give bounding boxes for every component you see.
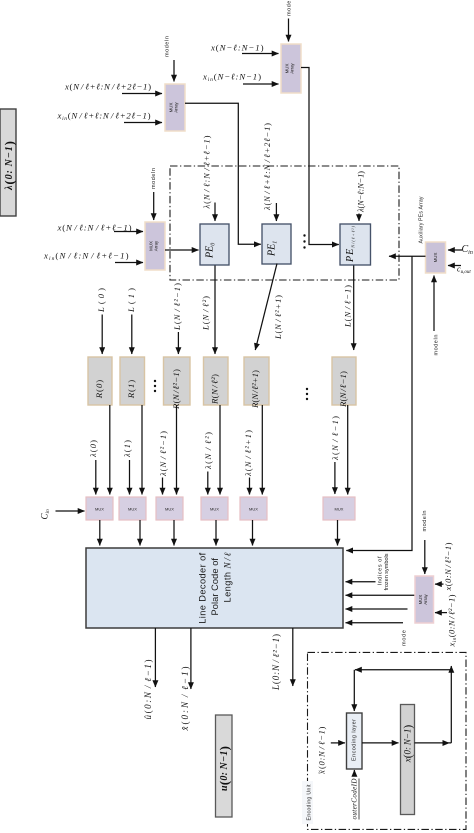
- wire lambda into PE1: [275, 203, 277, 221]
- register R(N/l^2+1): [244, 357, 269, 409]
- svg-text:modeIn: modeIn: [286, 0, 292, 16]
- svg-text:L(N / ℓ²−1): L(N / ℓ²−1): [172, 283, 182, 331]
- mux auxiliary MUX: [426, 242, 446, 273]
- svg-text:Array: Array: [174, 101, 179, 112]
- node L(0) dangling input: [96, 288, 106, 354]
- op PE0: [200, 224, 229, 265]
- wire R(1) output to MUX2: [141, 405, 143, 495]
- wire MUX array U1 output to PE1: [185, 103, 261, 244]
- MUX Array U1 (top left): [165, 84, 185, 131]
- mux M2: [119, 497, 146, 520]
- wire x(0:N-1) output to feedback corner: [415, 740, 452, 746]
- svg-text:λ(N / ℓ²): λ(N / ℓ²): [203, 432, 213, 470]
- node L(N/l^2-1) dangling input: [172, 283, 182, 354]
- mux M1: [86, 497, 113, 520]
- wire MUX5 output to decoder: [252, 520, 254, 546]
- svg-text:outerCodeID: outerCodeID: [350, 779, 358, 820]
- wire decoder output x_hat(0:N/l-1): [180, 628, 191, 732]
- svg-text:λ(N−ℓ:N−1): λ(N−ℓ:N−1): [356, 171, 366, 213]
- svg-text:MUX: MUX: [128, 507, 137, 512]
- svg-text:xin(N / ℓ+ℓ:N / ℓ+2ℓ−1): xin(N / ℓ+ℓ:N / ℓ+2ℓ−1): [57, 111, 151, 123]
- svg-text:R(N / ℓ²−1): R(N / ℓ²−1): [171, 369, 181, 410]
- op PE_last: [340, 224, 371, 265]
- mux M5: [240, 497, 267, 520]
- register R(1): [120, 357, 145, 405]
- wire x input to MUX array U1: [122, 93, 162, 95]
- svg-text:λ(N / ℓ+ℓ:N / ℓ+2ℓ−1): λ(N / ℓ+ℓ:N / ℓ+2ℓ−1): [262, 123, 272, 211]
- node outerCodeID input: [350, 770, 359, 820]
- wire MUX6 output to decoder: [337, 520, 339, 546]
- Encoding Unit dash-dot boundary: [308, 652, 467, 829]
- wire decoder output L(0:N/l^2-1): [271, 628, 293, 691]
- node lambda(N/l^2-1) dangling input to MUX3: [158, 431, 168, 495]
- svg-text:frozen symbols: frozen symbols: [384, 553, 390, 590]
- node lambda(N/l^2+1) dangling input to MUX5: [243, 430, 253, 495]
- mux M3: [156, 497, 183, 520]
- svg-text:λ(0: N−1): λ(0: N−1): [1, 141, 16, 191]
- svg-text:R(0): R(0): [94, 380, 104, 400]
- wire x_in input to MUX array U3: [243, 83, 279, 85]
- svg-text:λ(N / ℓ−1): λ(N / ℓ−1): [330, 416, 340, 461]
- svg-text:modeIn: modeIn: [434, 335, 440, 356]
- wire feedback top across: [355, 669, 451, 671]
- block Encoding layer: [347, 713, 363, 769]
- svg-text:R(1): R(1): [126, 380, 136, 400]
- node mode input to decoder: [346, 623, 408, 646]
- mux M6: [323, 497, 355, 520]
- node lambda(N/l^2) dangling input to MUX4: [203, 432, 213, 495]
- svg-text:MUX: MUX: [249, 507, 258, 512]
- wire decoder output u_hat(0:N/l-1): [143, 628, 155, 720]
- mux M4: [201, 497, 228, 520]
- wire c_u,out to aux MUX: [448, 265, 461, 267]
- svg-text:λ(N / ℓ:N / ℓ+ℓ−1): λ(N / ℓ:N / ℓ+ℓ−1): [202, 135, 212, 209]
- svg-text:Length N / ℓ: Length N / ℓ: [223, 552, 233, 602]
- register R(N/l-1): [332, 357, 356, 408]
- svg-text:Auxiliary PEs Array: Auxiliary PEs Array: [418, 196, 424, 243]
- wire R(N/l^2-1) output to MUX3: [176, 405, 178, 495]
- svg-text:λ(N / ℓ²+1): λ(N / ℓ²+1): [243, 430, 253, 477]
- wire lambda into PE_last: [358, 214, 360, 222]
- wire R(N/l^2) output to MUX4: [219, 405, 221, 495]
- wire MUX4 output to decoder: [215, 520, 217, 546]
- svg-text:MUX: MUX: [95, 507, 104, 512]
- wire MUX array U2 output to PE0: [165, 249, 199, 251]
- wire from aux MUX junction down to decoder right input 1: [346, 256, 412, 550]
- line decoder block: [86, 548, 343, 628]
- wire modeIn into MUX array U2: [151, 168, 157, 220]
- svg-text:Encoding layer: Encoding layer: [352, 719, 358, 761]
- svg-text:modeIn: modeIn: [151, 168, 157, 189]
- svg-text:x~(0:N / ℓ−1): x~(0:N / ℓ−1): [317, 726, 327, 774]
- wire modeIn into MUX array U1: [164, 36, 174, 82]
- svg-text:Array: Array: [154, 240, 159, 251]
- node L(1) dangling input: [126, 288, 136, 354]
- svg-text:λ(0): λ(0): [88, 440, 98, 458]
- wire MUX1 output to decoder: [99, 520, 101, 546]
- input bus bar lambda(0:N-1): [0, 109, 16, 216]
- dots between R(1) and R(N/l^2-1): [154, 380, 156, 392]
- dots between PE1 and PE_last: [303, 234, 305, 248]
- svg-text:x(N / ℓ+ℓ:N / ℓ+2ℓ−1): x(N / ℓ+ℓ:N / ℓ+2ℓ−1): [64, 82, 151, 92]
- node lambda(1) dangling input to MUX2: [122, 440, 132, 495]
- wire x input to MUX array U3: [242, 53, 279, 55]
- svg-text:modeIn: modeIn: [422, 511, 428, 532]
- wire MUX array U3 output to PE_last: [301, 68, 339, 245]
- svg-text:MUX: MUX: [210, 507, 219, 512]
- node lambda(N/l-1) dangling input to MUX6: [330, 416, 340, 494]
- wire modeIn into right MUX array: [422, 511, 428, 575]
- register R(N/l^2-1): [164, 357, 191, 410]
- wire R(N/l^2+1) output to MUX5: [261, 405, 263, 495]
- MUX Array (right, decoder side): [415, 576, 434, 623]
- svg-text:Line Decoder of: Line Decoder of: [198, 552, 208, 623]
- MUX Array U3 (top right): [281, 44, 301, 93]
- svg-text:MUX: MUX: [165, 507, 174, 512]
- wire modeIn up into aux MUX: [434, 276, 440, 356]
- svg-text:L(N / ℓ²): L(N / ℓ²): [201, 296, 211, 331]
- svg-text:λ(N / ℓ²−1): λ(N / ℓ²−1): [158, 431, 168, 477]
- node x_in(0:N/l^2-1) input to right MUX array: [435, 594, 458, 647]
- svg-text:L(N / ℓ²+1): L(N / ℓ²+1): [273, 295, 283, 340]
- wire PE1 output diagonal to R(N/l^2+1), node L(N/l^2+1): [255, 264, 283, 351]
- PEs array dash-dot boundary: [170, 166, 399, 280]
- wire MUX2 output to decoder: [139, 520, 141, 546]
- wire modeIn into MUX array U3: [286, 0, 292, 42]
- svg-text:R(N / ℓ−1): R(N / ℓ−1): [338, 371, 348, 408]
- wire MUX3 output to decoder: [173, 520, 175, 546]
- wire x input to MUX array U2: [114, 231, 143, 233]
- wire right MUX array output to decoder: [346, 594, 416, 596]
- svg-text:Array: Array: [423, 593, 428, 604]
- svg-text:x(0:N / ℓ²−1): x(0:N / ℓ²−1): [443, 542, 453, 591]
- wire dangling input to decoder: [346, 608, 408, 610]
- svg-text:Indices of: Indices of: [378, 556, 384, 585]
- svg-text:MUX: MUX: [433, 253, 438, 263]
- wire feedback down into encoding layer: [353, 670, 355, 711]
- svg-text:mode: mode: [401, 630, 407, 646]
- svg-text:L(N / ℓ−1): L(N / ℓ−1): [343, 285, 353, 328]
- register bar x(0:N-1): [401, 705, 415, 815]
- wire C_in to MUX1: [56, 510, 85, 512]
- svg-text:modeIn: modeIn: [164, 36, 170, 57]
- wire aux MUX output into PEs array: [389, 255, 426, 257]
- svg-text:R(N / ℓ²): R(N / ℓ²): [210, 374, 220, 405]
- svg-text:R(N / ℓ²+1): R(N / ℓ²+1): [250, 370, 260, 409]
- MUX Array U2 (left, feeds PE0): [145, 222, 165, 270]
- wire PE_last output down to R(N/l-1), node L(N/l-1): [343, 266, 354, 351]
- svg-text:u(0: N−1): u(0: N−1): [216, 746, 231, 791]
- wire x_in input to MUX array U1: [124, 122, 162, 124]
- dots between R(N/l^2+1) and R(N/l-1): [306, 388, 308, 400]
- svg-text:Encoding Unit: Encoding Unit: [306, 784, 312, 821]
- wire x_in input to MUX array U2: [115, 262, 143, 264]
- svg-text:x(N−ℓ:N−1): x(N−ℓ:N−1): [210, 43, 264, 53]
- wire PE0 output down to R(N/l^2), node L(N/l^2): [201, 266, 216, 355]
- wire C_in to aux MUX: [448, 249, 462, 251]
- svg-text:xin(N / ℓ:N / ℓ+ℓ−1): xin(N / ℓ:N / ℓ+ℓ−1): [43, 251, 129, 263]
- wire feedback up right side: [450, 666, 452, 743]
- svg-text:λ(1): λ(1): [122, 440, 132, 458]
- op PE1: [262, 224, 291, 264]
- svg-text:L(0:N / ℓ²−1): L(0:N / ℓ²−1): [271, 634, 281, 691]
- node Indices of frozen symbols input: [346, 553, 391, 590]
- register R(N/l^2): [204, 357, 229, 405]
- wire R(N/l-1) output to MUX6: [347, 405, 349, 495]
- label Encoding Unit: [302, 781, 313, 824]
- wire lambda into PE0: [214, 203, 216, 222]
- svg-text:Polar Code of: Polar Code of: [210, 558, 220, 616]
- output bus bar u(0:N-1): [216, 715, 233, 817]
- wire R(0) output to MUX1: [109, 405, 111, 495]
- wire encoding layer output to x(0:N-1): [362, 742, 399, 744]
- node lambda(0) dangling input to MUX1: [88, 440, 98, 495]
- node x(0:N/l^2-1) input to right MUX array: [435, 542, 453, 591]
- node x_tilde(0:N/l-1) input to encoding layer: [317, 726, 346, 774]
- svg-text:MUX: MUX: [335, 507, 344, 512]
- register R(0): [88, 357, 112, 405]
- svg-text:Array: Array: [290, 62, 295, 73]
